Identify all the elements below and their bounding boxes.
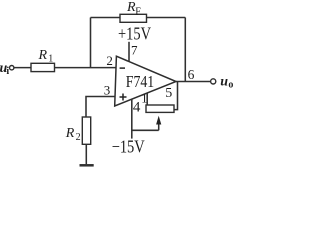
svg-text:6: 6: [188, 67, 195, 82]
svg-text:2: 2: [76, 132, 81, 143]
svg-text:R: R: [65, 126, 75, 141]
svg-text:7: 7: [131, 43, 138, 58]
svg-text:i: i: [6, 66, 9, 77]
svg-text:u: u: [220, 74, 228, 89]
svg-text:R: R: [38, 48, 48, 63]
svg-text:4: 4: [133, 100, 141, 116]
svg-text:5: 5: [165, 86, 172, 101]
svg-text:2: 2: [106, 53, 113, 68]
svg-text:o: o: [228, 80, 233, 91]
svg-text:F: F: [135, 7, 141, 18]
svg-text:−15V: −15V: [112, 136, 145, 156]
svg-text:1: 1: [141, 92, 147, 106]
svg-text:1: 1: [48, 54, 53, 65]
svg-text:3: 3: [104, 83, 111, 98]
svg-text:F741: F741: [126, 72, 155, 91]
svg-text:+15V: +15V: [118, 24, 151, 44]
